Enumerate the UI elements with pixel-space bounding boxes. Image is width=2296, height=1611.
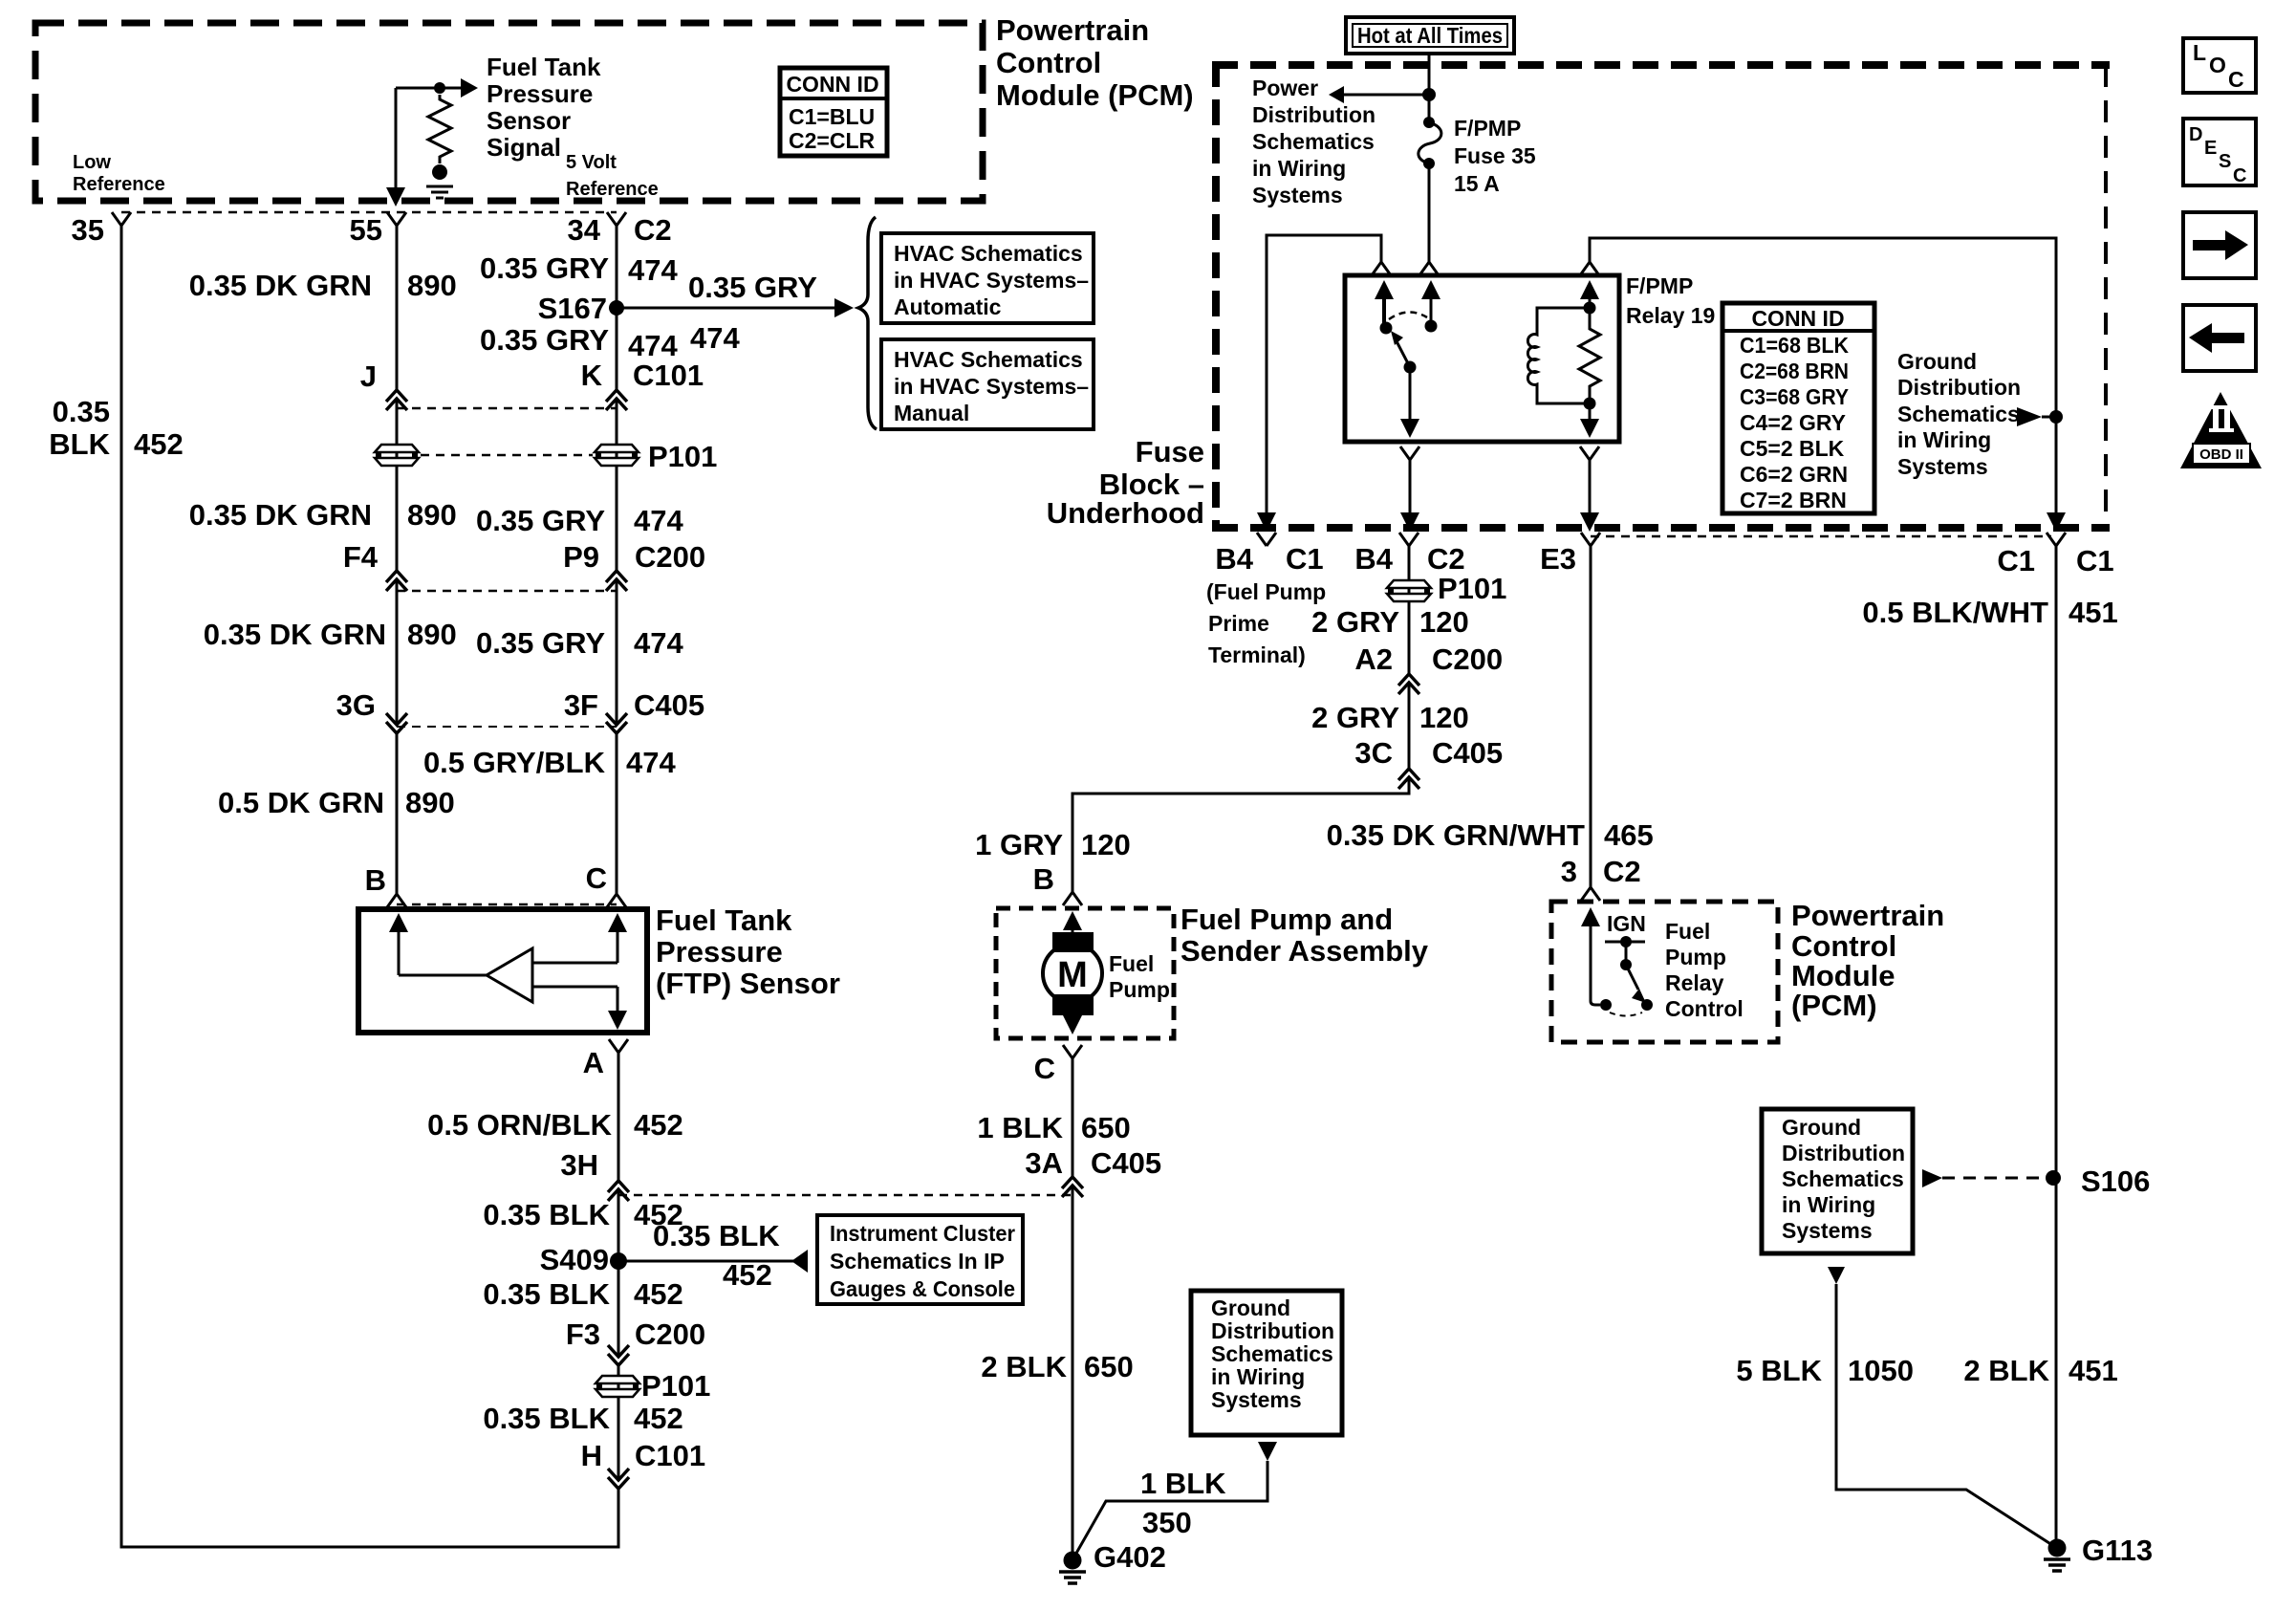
pin H / conn C101 labels	[581, 1439, 706, 1472]
relay coil bottom node	[1584, 398, 1596, 410]
connector fork C (into FTP)	[607, 894, 626, 907]
svg-text:452: 452	[634, 1402, 683, 1435]
svg-text:3G: 3G	[336, 688, 376, 722]
svg-text:1050: 1050	[1848, 1354, 1914, 1387]
svg-text:E3: E3	[1540, 542, 1576, 576]
wire label 0.35 BLK / 452 (below P101)	[483, 1402, 682, 1435]
svg-text:F/PMP: F/PMP	[1626, 273, 1693, 298]
arrow to HVAC refs	[834, 298, 854, 317]
wire label 0.5 GRY/BLK / 474	[423, 746, 677, 779]
5 Volt Reference pin label	[566, 152, 659, 200]
svg-text:in HVAC Systems–: in HVAC Systems–	[894, 268, 1089, 293]
connector C405 face line (lower)	[618, 1194, 1072, 1197]
Fuel Tank Pressure Sensor Signal label	[487, 53, 601, 162]
svg-text:0.35 GRY: 0.35 GRY	[688, 271, 817, 304]
connector fork pin C (fuel pump)	[1063, 1045, 1082, 1058]
svg-text:0.5 DK GRN: 0.5 DK GRN	[218, 786, 384, 819]
connector C200 chevron F3	[608, 1345, 629, 1365]
FTP sensor name label	[656, 903, 840, 1000]
svg-text:C: C	[586, 861, 607, 895]
connector fork pin 55	[387, 212, 406, 226]
svg-text:C3=68 GRY: C3=68 GRY	[1740, 384, 1849, 409]
svg-text:Automatic: Automatic	[894, 294, 1002, 319]
svg-text:0.35 DK GRN/WHT: 0.35 DK GRN/WHT	[1327, 818, 1585, 852]
svg-text:(PCM): (PCM)	[1791, 989, 1877, 1022]
relay contact node (fuse side)	[1425, 320, 1438, 333]
svg-text:452: 452	[634, 1277, 683, 1311]
connector C101 chevron K	[606, 390, 627, 410]
wire: coil output to E3	[1580, 460, 1599, 532]
svg-text:35: 35	[72, 213, 104, 247]
Ground Distribution reference box (right)	[1762, 1109, 1913, 1253]
svg-text:Control: Control	[1791, 929, 1896, 963]
svg-text:Relay 19: Relay 19	[1626, 303, 1715, 328]
connector fork B (into FTP)	[387, 894, 406, 907]
connector P101 (lower)	[596, 1376, 639, 1397]
arrow to signal label	[461, 78, 478, 98]
svg-text:C: C	[2228, 67, 2244, 92]
svg-text:1 BLK: 1 BLK	[977, 1111, 1063, 1144]
connector C405 face line	[397, 726, 617, 728]
svg-text:E: E	[2204, 138, 2217, 159]
svg-text:C4=2 GRY: C4=2 GRY	[1740, 410, 1846, 435]
FTP internal signal wire with down arrow	[532, 987, 627, 1030]
svg-text:in Wiring: in Wiring	[1897, 427, 1991, 452]
connector face line E3 to C1 (dashed)	[1591, 535, 2051, 538]
wire: low reference internal stub	[395, 88, 398, 188]
IGN terminal bar	[1605, 936, 1645, 965]
connector fork below relay (coil out)	[1580, 446, 1599, 460]
svg-text:Distribution: Distribution	[1211, 1318, 1334, 1343]
Ground Distribution reference label (top right)	[1897, 349, 2021, 479]
svg-text:Underhood: Underhood	[1047, 496, 1204, 530]
pin 3A / conn C405 labels	[1025, 1146, 1161, 1180]
svg-text:P101: P101	[641, 1369, 710, 1403]
FTP connector face line	[397, 903, 617, 906]
svg-text:Control: Control	[1665, 996, 1744, 1021]
node S167	[609, 300, 624, 316]
svg-text:0.35: 0.35	[53, 395, 110, 428]
F/PMP Relay 19 box	[1345, 275, 1619, 442]
wire label 2 BLK / 650	[981, 1350, 1133, 1383]
fuse F/PMP Fuse 35 15A	[1419, 117, 1441, 169]
forward arrow tab	[2183, 212, 2256, 278]
CONN ID table (fuse block connectors)	[1722, 303, 1874, 513]
dashed link to S106	[1922, 1169, 2046, 1187]
node: ground distribution tap	[2049, 410, 2063, 424]
PCM module box top-left (dashed)	[35, 23, 983, 201]
fuel pump label	[1109, 951, 1170, 1002]
ground symbol (internal)	[426, 186, 453, 198]
relay coil output wire	[1580, 403, 1599, 438]
svg-text:Schematics In IP: Schematics In IP	[830, 1249, 1005, 1274]
svg-text:C1: C1	[2076, 544, 2114, 577]
conn C1 / C1 labels	[1997, 544, 2113, 577]
svg-text:34: 34	[568, 213, 601, 247]
svg-text:OBD II: OBD II	[2199, 446, 2243, 463]
back arrow tab	[2183, 305, 2256, 371]
svg-text:C405: C405	[1432, 736, 1503, 770]
wire: 0.35 DK GRN/WHT 465 to PCM	[1590, 546, 1592, 887]
wire label 2 BLK / 451	[1963, 1354, 2117, 1387]
svg-text:in HVAC Systems–: in HVAC Systems–	[894, 374, 1089, 399]
svg-text:S106: S106	[2081, 1165, 2150, 1198]
pin 3C / conn C405 labels	[1354, 736, 1503, 770]
svg-text:451: 451	[2069, 596, 2118, 629]
connector fork pin 35	[112, 212, 131, 226]
svg-text:Power: Power	[1252, 76, 1318, 100]
arrow down at fuse block edge (prime terminal)	[1257, 512, 1276, 532]
svg-text:55: 55	[350, 213, 382, 247]
svg-text:2 BLK: 2 BLK	[981, 1350, 1067, 1383]
relay control switch blade	[1626, 965, 1646, 1003]
relay coil feed	[1580, 280, 1599, 308]
svg-text:Schematics: Schematics	[1897, 402, 2020, 426]
wire: 0.35 GRY 474	[616, 226, 618, 894]
svg-text:O: O	[2209, 53, 2226, 77]
wire label 0.5 DK GRN / 890	[218, 786, 455, 819]
connector C200 chevron A2	[1398, 674, 1419, 694]
Fuse Block label	[1047, 435, 1204, 530]
relay coil (winding)	[1527, 308, 1590, 403]
svg-text:IGN: IGN	[1607, 911, 1646, 936]
svg-text:C2: C2	[634, 213, 672, 247]
connector C101 chevron J	[386, 390, 407, 410]
svg-text:3H: 3H	[560, 1148, 598, 1182]
relay blade pivot node	[1404, 361, 1417, 374]
svg-text:Systems: Systems	[1211, 1387, 1302, 1412]
ground ball (internal)	[432, 164, 447, 180]
svg-text:C1=BLU: C1=BLU	[789, 104, 875, 129]
wire: 0.35 GRY 474 branch to HVAC	[617, 307, 836, 310]
wire label 0.35 GRY / 474 row4	[476, 626, 683, 660]
svg-text:Reference: Reference	[73, 174, 165, 195]
svg-text:650: 650	[1081, 1111, 1131, 1144]
svg-text:Pump: Pump	[1665, 945, 1726, 969]
svg-text:890: 890	[407, 269, 457, 302]
svg-text:S409: S409	[540, 1243, 609, 1276]
Fuel Pump Relay Control label	[1665, 919, 1744, 1021]
svg-text:Terminal): Terminal)	[1208, 642, 1306, 667]
wire: sensor signal internal	[396, 87, 461, 90]
connector C101 face line	[397, 407, 617, 410]
svg-text:Fuel: Fuel	[1109, 951, 1154, 976]
fuel pump motor M1	[1043, 911, 1102, 1034]
LOC tab	[2183, 38, 2256, 93]
connector fork C1 C1	[2047, 533, 2066, 546]
pin P9 / conn C200 labels	[563, 540, 705, 574]
PCM internal relay control wire	[1581, 907, 1600, 1005]
svg-text:452: 452	[134, 427, 184, 461]
svg-text:C200: C200	[635, 540, 705, 574]
connector fork into relay (fuse side)	[1419, 262, 1439, 275]
svg-text:CONN ID: CONN ID	[786, 72, 878, 97]
arrow down at fuse block edge (C1 wire)	[2047, 512, 2066, 532]
wire label 0.35 BLK / 452 (below S409)	[483, 1277, 682, 1311]
svg-text:Signal: Signal	[487, 133, 561, 162]
connector C200 chevron P9	[606, 571, 627, 591]
wire label 5 BLK / 1050	[1736, 1354, 1914, 1387]
connector C101 chevron H	[608, 1469, 629, 1489]
Fuel Pump Prime Terminal note	[1206, 579, 1326, 667]
svg-text:HVAC Schematics: HVAC Schematics	[894, 241, 1083, 266]
Power Distribution reference label	[1252, 76, 1375, 207]
relay shunt resistor	[1579, 308, 1600, 403]
svg-text:0.35 BLK: 0.35 BLK	[653, 1219, 780, 1252]
svg-text:Pressure: Pressure	[487, 79, 593, 108]
connector fork B4 C1	[1257, 533, 1276, 546]
wire label 0.35 GRY / 474 row3	[476, 504, 683, 537]
svg-text:Fuel Pump and: Fuel Pump and	[1180, 903, 1393, 936]
svg-text:2 GRY: 2 GRY	[1311, 605, 1399, 639]
arrow below ground distribution ref (right)	[1828, 1267, 1845, 1284]
wire label 0.35 BLK / 452 (above S409)	[483, 1198, 682, 1231]
svg-text:B: B	[1033, 862, 1054, 896]
svg-text:Systems: Systems	[1897, 454, 1988, 479]
svg-text:P101: P101	[648, 440, 717, 473]
svg-text:C2=CLR: C2=CLR	[789, 128, 875, 153]
svg-text:452: 452	[723, 1258, 772, 1292]
node S106	[2046, 1170, 2061, 1186]
svg-text:L: L	[2193, 40, 2206, 65]
relay control contact node (left)	[1600, 999, 1612, 1011]
svg-text:350: 350	[1142, 1506, 1192, 1539]
connector fork into relay (prime side)	[1372, 262, 1391, 275]
svg-text:Pressure: Pressure	[656, 935, 783, 969]
svg-text:M: M	[1057, 955, 1088, 995]
svg-text:CONN ID: CONN ID	[1751, 306, 1844, 331]
svg-text:Distribution: Distribution	[1252, 102, 1375, 127]
connector fork into relay (coil feed)	[1580, 262, 1599, 275]
Fuel Pump and Sender Assembly label	[1180, 903, 1429, 968]
wire: 0.5 BLK/WHT 451 / 2 BLK 451	[2055, 546, 2058, 1548]
connector fork into PCM (relay control)	[1581, 887, 1600, 901]
svg-text:Module (PCM): Module (PCM)	[996, 78, 1194, 112]
wire label 0.5 ORN/BLK / 452	[427, 1108, 683, 1142]
wire label 2 GRY / 120	[1311, 605, 1469, 639]
svg-text:Schematics: Schematics	[1782, 1166, 1904, 1191]
wire label 0.35 DK GRN / 890 row3	[204, 618, 457, 651]
svg-text:C2=68 BRN: C2=68 BRN	[1740, 359, 1849, 383]
svg-text:Gauges & Console: Gauges & Console	[830, 1276, 1015, 1301]
connector C200 chevron F4	[386, 571, 407, 591]
svg-text:474: 474	[634, 626, 683, 660]
pin B4 / conn C1 labels	[1215, 542, 1323, 576]
svg-text:C6=2 GRN: C6=2 GRN	[1740, 462, 1848, 487]
svg-text:Fuel Tank: Fuel Tank	[487, 53, 601, 81]
svg-text:C1: C1	[1997, 544, 2035, 577]
wire: 1 BLK 650 / 2 BLK 650 ground wire	[1072, 1058, 1074, 1553]
connector P101 (right of pair)	[595, 445, 639, 466]
svg-text:Instrument Cluster: Instrument Cluster	[830, 1221, 1015, 1246]
svg-text:H: H	[581, 1439, 602, 1472]
svg-text:Schematics: Schematics	[1252, 129, 1375, 154]
svg-text:Hot at All Times: Hot at All Times	[1357, 23, 1503, 48]
ground G402	[1059, 1552, 1086, 1584]
svg-text:Fuel: Fuel	[1665, 919, 1710, 944]
svg-text:C200: C200	[1432, 642, 1503, 676]
arrow into ground distribution ref (mid)	[1258, 1442, 1277, 1461]
svg-text:Reference: Reference	[566, 179, 659, 200]
Fuel Tank Pressure (FTP) Sensor box	[358, 909, 647, 1033]
wire: fuse output to relay	[1428, 163, 1431, 262]
svg-text:0.5 BLK/WHT: 0.5 BLK/WHT	[1862, 596, 2048, 629]
wire label 0.35 BLK 452 (left)	[49, 395, 183, 461]
fuse label F/PMP Fuse 35 15 A	[1454, 116, 1536, 196]
svg-text:120: 120	[1419, 701, 1469, 734]
svg-text:120: 120	[1419, 605, 1469, 639]
node: signal junction	[434, 82, 445, 94]
node S409	[610, 1252, 627, 1270]
wire label 2 GRY / 120 row2	[1311, 701, 1469, 734]
svg-text:0.35 DK GRN: 0.35 DK GRN	[204, 618, 386, 651]
svg-text:K: K	[581, 359, 603, 392]
wire: 0.35 BLK 452 branch to instrument cluster	[618, 1260, 793, 1263]
svg-text:Ground: Ground	[1211, 1295, 1290, 1320]
arrow wedge to instrument cluster	[791, 1250, 808, 1273]
wire label 1 BLK / 650	[977, 1111, 1130, 1144]
wire label 1 GRY / 120	[975, 828, 1131, 861]
pin F3 / conn C200 labels	[566, 1317, 705, 1351]
wire: battery feed to fuse	[1428, 54, 1431, 122]
connector C2 face line (dashed)	[121, 211, 617, 214]
connector P101 (left pair)	[375, 445, 419, 466]
wire: 0.5 ORN/BLK 452	[617, 1053, 620, 1547]
svg-text:0.35 GRY: 0.35 GRY	[480, 323, 609, 357]
svg-text:1 BLK: 1 BLK	[1140, 1467, 1226, 1500]
relay coil top node	[1584, 302, 1596, 315]
FTP internal low-ref wire with up arrow	[389, 913, 487, 975]
svg-text:Powertrain: Powertrain	[1791, 899, 1944, 932]
relay contact node (common)	[1380, 322, 1393, 335]
svg-text:Relay: Relay	[1665, 970, 1724, 995]
connector fork pin 34	[607, 212, 626, 226]
wire: prime terminal branch	[1267, 235, 1381, 516]
svg-text:1 GRY: 1 GRY	[975, 828, 1063, 861]
Fuel Pump and Sender Assembly box (dashed)	[996, 908, 1174, 1038]
svg-text:C: C	[2233, 165, 2246, 186]
relay control contact node (right)	[1641, 999, 1653, 1011]
wire label 0.35 GRY / 474	[480, 251, 678, 287]
svg-text:F4: F4	[343, 540, 379, 574]
svg-text:Fuse 35: Fuse 35	[1454, 143, 1536, 168]
svg-text:474: 474	[626, 746, 676, 779]
arrow down at PCM edge	[386, 187, 405, 207]
svg-text:C405: C405	[1091, 1146, 1161, 1180]
arrow to power distribution	[1329, 86, 1344, 103]
svg-text:C405: C405	[634, 688, 704, 722]
svg-text:Ground: Ground	[1897, 349, 1977, 374]
DESC tab	[2183, 119, 2256, 186]
svg-text:C: C	[1034, 1052, 1055, 1085]
connector P101 (fuel pump feed)	[1387, 580, 1431, 601]
svg-text:in Wiring: in Wiring	[1252, 156, 1346, 181]
svg-text:2 BLK: 2 BLK	[1963, 1354, 2049, 1387]
pin B4 / conn C2 labels	[1354, 542, 1464, 576]
svg-text:2 GRY: 2 GRY	[1311, 701, 1399, 734]
relay NO contact feed	[1421, 280, 1440, 326]
svg-text:Systems: Systems	[1782, 1218, 1873, 1243]
svg-text:Fuse: Fuse	[1136, 435, 1204, 468]
connector fork B (into fuel pump)	[1063, 892, 1082, 905]
connector C405 chevron 3F	[606, 713, 627, 733]
Low Reference pin label	[73, 152, 165, 195]
svg-text:C2: C2	[1427, 542, 1465, 576]
wire label 0.35 DK GRN / 890 row2	[189, 498, 457, 532]
svg-text:0.35 BLK: 0.35 BLK	[483, 1277, 610, 1311]
svg-text:Ground: Ground	[1782, 1115, 1861, 1140]
svg-text:S167: S167	[538, 292, 607, 325]
brace to HVAC refs	[858, 217, 877, 429]
svg-text:Manual: Manual	[894, 401, 969, 425]
svg-text:P9: P9	[563, 540, 599, 574]
connector C405 chevron 3G	[386, 713, 407, 733]
pin K / conn C101 labels	[581, 359, 704, 392]
svg-text:(FTP) Sensor: (FTP) Sensor	[656, 967, 840, 1000]
svg-text:Low: Low	[73, 152, 111, 173]
svg-text:452: 452	[634, 1108, 683, 1142]
svg-text:650: 650	[1084, 1350, 1134, 1383]
svg-text:890: 890	[407, 498, 457, 532]
svg-text:0.5 GRY/BLK: 0.5 GRY/BLK	[423, 746, 606, 779]
connector fork B4 C2	[1399, 533, 1419, 546]
relay throw arc (dashed)	[1389, 312, 1427, 319]
svg-text:0.35 BLK: 0.35 BLK	[483, 1402, 610, 1435]
svg-text:B: B	[365, 863, 386, 897]
svg-text:120: 120	[1081, 828, 1131, 861]
svg-text:C7=2 BRN: C7=2 BRN	[1740, 488, 1847, 512]
pin 3F / conn C405 labels	[564, 688, 704, 722]
svg-text:in Wiring: in Wiring	[1211, 1364, 1305, 1389]
Fuse Block Underhood box (dashed)	[1212, 61, 2110, 532]
wire label 0.35 GRY / 474 row2	[480, 323, 678, 362]
svg-text:C1: C1	[1286, 542, 1324, 576]
relay blade with arrow	[1391, 331, 1410, 367]
svg-text:BLK: BLK	[49, 427, 110, 461]
wire: 5 BLK 1050	[1836, 1284, 2052, 1545]
wire: 1 BLK 350	[1074, 1461, 1267, 1557]
svg-text:474: 474	[690, 321, 740, 355]
relay switch common feed	[1375, 280, 1394, 326]
svg-text:(Fuel Pump: (Fuel Pump	[1206, 579, 1326, 604]
wire label 0.35 DK GRN/WHT / 465	[1327, 818, 1654, 852]
wire label 0.35 DK GRN / 890	[189, 269, 457, 302]
resistor: FTP sensor pull-up	[428, 95, 451, 163]
wire: 0.35 DK GRN 890	[396, 226, 399, 894]
svg-text:J: J	[360, 359, 377, 393]
svg-text:Powertrain: Powertrain	[996, 13, 1149, 47]
wire to power distribution	[1344, 94, 1429, 97]
Hot at All Times banner box	[1346, 17, 1514, 54]
svg-text:B4: B4	[1354, 542, 1393, 576]
svg-text:890: 890	[405, 786, 455, 819]
svg-text:B4: B4	[1215, 542, 1253, 576]
wire: 2 GRY 120 from B4 C2	[1072, 546, 1409, 892]
svg-text:C200: C200	[635, 1317, 705, 1351]
svg-text:A: A	[583, 1046, 604, 1079]
connector fork below relay (switch out)	[1400, 446, 1419, 460]
wire: 0.35 BLK 452 low reference circuit	[121, 226, 618, 1547]
svg-text:Sensor: Sensor	[487, 106, 571, 135]
wire: switch output to P101	[1400, 460, 1419, 532]
svg-text:3C: 3C	[1354, 736, 1393, 770]
PCM name label	[996, 13, 1194, 112]
svg-text:Systems: Systems	[1252, 183, 1343, 207]
svg-text:5 Volt: 5 Volt	[566, 152, 617, 173]
relay name label	[1626, 273, 1715, 328]
op-amp U (FTP sensor amplifier)	[487, 948, 532, 1002]
svg-text:474: 474	[628, 329, 678, 362]
